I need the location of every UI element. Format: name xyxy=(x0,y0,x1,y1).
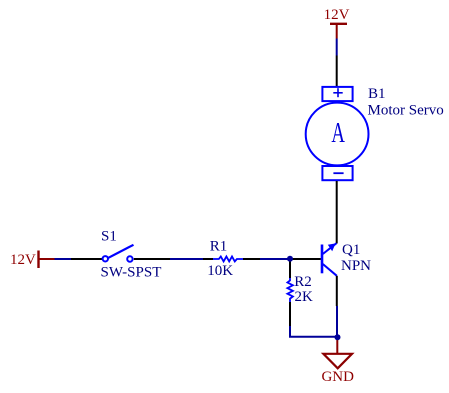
node junction (ground node) xyxy=(335,334,341,340)
pin (S1 left pin) xyxy=(71,258,103,260)
svg-text:12V: 12V xyxy=(10,252,36,268)
svg-text:12V: 12V xyxy=(324,7,350,23)
svg-text:R1: R1 xyxy=(210,238,228,254)
pin (R1 right pin) xyxy=(243,258,260,260)
pin (R2 top pin) xyxy=(289,259,291,278)
svg-text:NPN: NPN xyxy=(341,258,371,274)
pin (S1 right pin) xyxy=(134,258,170,260)
resistor R1 xyxy=(213,257,243,262)
pin (R1 left pin) xyxy=(203,258,213,260)
resistor R2 xyxy=(287,278,293,302)
wire (R2 to bottom junction) xyxy=(290,326,337,337)
wire (top power to motor) xyxy=(336,39,338,56)
pin (Q1 base pin) xyxy=(290,258,321,260)
ground xyxy=(323,339,352,368)
switch S1 xyxy=(103,245,134,262)
svg-text:GND: GND xyxy=(321,369,354,385)
svg-text:SW-SPST: SW-SPST xyxy=(101,265,162,281)
wire (emitter to bottom junction) xyxy=(336,306,338,338)
svg-text:2K: 2K xyxy=(295,289,314,305)
wire (left power to switch) xyxy=(55,258,72,260)
svg-text:10K: 10K xyxy=(207,263,233,279)
svg-text:Motor Servo: Motor Servo xyxy=(368,103,444,119)
svg-text:Q1: Q1 xyxy=(342,242,360,258)
node junction (base node) xyxy=(287,256,293,262)
motor B1 xyxy=(306,87,369,180)
wire (R1 to junction) xyxy=(260,258,290,260)
svg-text:A: A xyxy=(331,118,345,149)
pin (Q1 emitter pin) xyxy=(336,276,338,306)
transistor Q1 xyxy=(322,243,337,276)
pin (motor + pin) xyxy=(336,56,338,88)
svg-text:R2: R2 xyxy=(294,274,312,290)
svg-text:B1: B1 xyxy=(368,86,386,102)
pin (motor - pin / Q1 collector pin) xyxy=(336,181,338,244)
power symbol 12V (top) xyxy=(324,7,350,39)
svg-text:S1: S1 xyxy=(101,228,117,244)
pin (R2 bottom pin) xyxy=(289,302,291,326)
wire (switch to R1) xyxy=(170,258,203,260)
power symbol 12V (left) xyxy=(10,251,55,269)
